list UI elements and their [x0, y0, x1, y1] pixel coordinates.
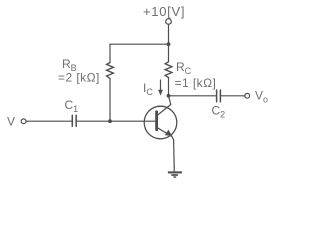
svg-text:IC: IC — [143, 81, 153, 97]
svg-text:RC: RC — [176, 60, 192, 76]
svg-text:C2: C2 — [212, 104, 226, 120]
svg-text:=1 [kΩ]: =1 [kΩ] — [175, 76, 217, 90]
svg-text:+10[V]: +10[V] — [143, 4, 185, 19]
svg-text:=2 [kΩ]: =2 [kΩ] — [58, 71, 100, 85]
svg-text:Vo: Vo — [255, 89, 268, 105]
svg-text:V: V — [7, 115, 15, 129]
svg-text:C1: C1 — [65, 98, 79, 114]
